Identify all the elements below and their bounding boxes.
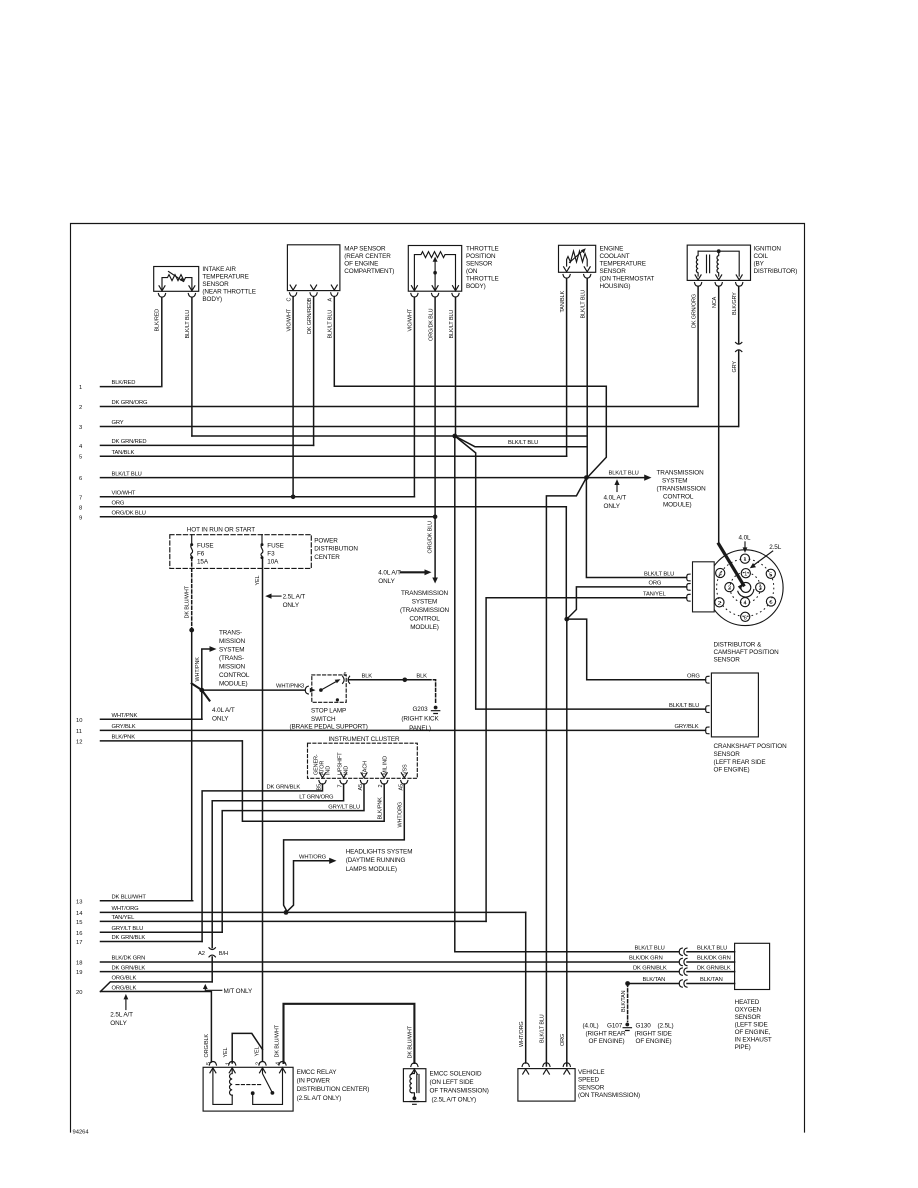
ignition coil box (687, 245, 797, 286)
svg-text:BODY): BODY) (466, 283, 486, 290)
relay pin 5 (209, 1062, 216, 1073)
svg-text:G203: G203 (412, 706, 428, 713)
fuse F6 15A (190, 535, 213, 566)
svg-text:DK GRN/BLK: DK GRN/BLK (697, 965, 731, 971)
wire YEL relay pin1 branch (223, 1033, 263, 1063)
svg-text:B5: B5 (317, 784, 323, 791)
svg-text:ONLY: ONLY (378, 578, 395, 585)
svg-text:7: 7 (338, 785, 344, 788)
TPS pin VIO/WHT (411, 286, 418, 297)
wire BLK/TAN HO2S to ground (621, 977, 735, 1021)
svg-text:NCA: NCA (712, 296, 718, 308)
wire ORG from wire8 down (565, 507, 567, 619)
svg-text:9: 9 (79, 515, 82, 521)
junction node BLK/LT BLU transmission (584, 475, 589, 480)
svg-text:(TRANSMISSION: (TRANSMISSION (657, 486, 707, 493)
wire VIO/WHT TPS to wire7 (408, 297, 415, 497)
svg-text:THROTTLE: THROTTLE (466, 276, 499, 283)
svg-text:4.0L A/T: 4.0L A/T (212, 707, 235, 714)
svg-text:HEATED: HEATED (735, 999, 760, 1006)
svg-text:BLK/DK GRN: BLK/DK GRN (112, 956, 146, 962)
headlights system text (346, 849, 413, 873)
throttle position sensor box (408, 246, 498, 298)
svg-text:SYSTEM: SYSTEM (412, 599, 438, 606)
svg-text:GRY/LT BLU: GRY/LT BLU (328, 804, 360, 810)
crankshaft position sensor box (669, 673, 787, 774)
wire DK GRN/ORG coil to wire2 (691, 286, 698, 406)
transmission system text upper (657, 470, 707, 509)
svg-text:DISTRIBUTION CENTER): DISTRIBUTION CENTER) (297, 1086, 370, 1093)
fuse F3 10A (261, 535, 284, 566)
engine coolant temperature sensor box (559, 245, 655, 290)
ECT pin TAN/BLK (563, 267, 570, 278)
cluster pin A5 VSS (401, 773, 408, 784)
svg-text:15A: 15A (197, 559, 209, 566)
svg-text:SENSOR: SENSOR (466, 261, 493, 268)
EMCC solenoid box (403, 1063, 488, 1104)
svg-text:COMPARTMENT): COMPARTMENT) (344, 268, 394, 275)
MAP pin C (290, 285, 297, 296)
wire 14 WHT/ORG (76, 906, 526, 917)
svg-text:G130: G130 (636, 1023, 652, 1030)
svg-text:BLK/LT BLU: BLK/LT BLU (449, 310, 455, 339)
crank sensor pin GRY/BLK (706, 727, 709, 734)
svg-text:ORG/BLK: ORG/BLK (112, 976, 137, 982)
svg-text:DK GRN/ORG: DK GRN/ORG (691, 294, 697, 328)
svg-text:LAMPS MODULE): LAMPS MODULE) (346, 866, 397, 873)
svg-text:1: 1 (79, 385, 82, 391)
ground G107 G130 (583, 1023, 674, 1046)
wire DK GRN/BLK generator ind to wire17 (202, 784, 322, 942)
svg-text:ONLY: ONLY (604, 503, 621, 510)
note 4.0L arrow to terminal 1 (739, 535, 752, 553)
svg-text:10A: 10A (267, 559, 279, 566)
svg-text:ONLY: ONLY (283, 602, 300, 609)
svg-text:HEADLIGHTS SYSTEM: HEADLIGHTS SYSTEM (346, 849, 413, 856)
ECT pin BLK/LT BLU (584, 267, 591, 278)
svg-text:MISSION: MISSION (219, 638, 246, 645)
svg-text:CONTROL: CONTROL (409, 616, 440, 623)
svg-text:DK GRN/RED: DK GRN/RED (307, 301, 313, 334)
svg-text:2.5L A/T: 2.5L A/T (283, 594, 306, 601)
svg-text:TAN/YEL: TAN/YEL (643, 591, 667, 597)
svg-text:MAP SENSOR: MAP SENSOR (344, 246, 386, 253)
svg-text:HOT IN RUN OR START: HOT IN RUN OR START (187, 527, 255, 534)
ground G203 (401, 706, 439, 732)
wire BLK/LT BLU jog to label run (455, 436, 587, 447)
svg-text:BLK/LT BLU: BLK/LT BLU (609, 471, 639, 477)
svg-text:(4.0L): (4.0L) (583, 1023, 599, 1030)
cluster pin 7 (340, 773, 347, 784)
intake air temperature sensor box (154, 266, 256, 303)
svg-text:INSTRUMENT CLUSTER: INSTRUMENT CLUSTER (329, 736, 401, 743)
coil secondary winding (717, 251, 719, 276)
solenoid coil (410, 1074, 412, 1093)
svg-text:WHT/ORG: WHT/ORG (112, 906, 140, 912)
thermistor symbol ECT (567, 251, 588, 266)
coil pin NCA (715, 275, 722, 286)
junction node BLK/LT BLU sensors (452, 434, 457, 439)
svg-text:CRANKSHAFT POSITION: CRANKSHAFT POSITION (714, 743, 788, 750)
svg-text:DK BLU/WHT: DK BLU/WHT (408, 1025, 414, 1058)
wire ORG to crankshaft sensor (567, 619, 706, 680)
svg-text:IN EXHAUST: IN EXHAUST (735, 1037, 772, 1044)
svg-text:TAN/BLK: TAN/BLK (112, 450, 135, 456)
svg-text:SENSOR: SENSOR (714, 751, 741, 758)
intake pin left (158, 286, 165, 297)
stop lamp switch dashed box (290, 672, 368, 731)
svg-text:OF ENGINE): OF ENGINE) (636, 1038, 672, 1045)
svg-text:(ON TRANSMISSION): (ON TRANSMISSION) (578, 1092, 640, 1099)
svg-text:A2: A2 (198, 951, 205, 957)
svg-text:BLK/LT BLU: BLK/LT BLU (508, 440, 538, 446)
svg-text:3: 3 (301, 684, 304, 690)
relay switch (236, 1084, 262, 1086)
wire BLK/LT BLU ECT down to junction and distributor (581, 278, 687, 577)
svg-text:3: 3 (759, 586, 762, 592)
svg-text:POSITION: POSITION (466, 253, 496, 260)
svg-text:YEL: YEL (223, 1047, 229, 1057)
svg-text:DK GRN/BLK: DK GRN/BLK (112, 965, 146, 971)
svg-text:5: 5 (769, 572, 772, 578)
svg-text:BLK: BLK (362, 673, 373, 679)
svg-text:(TRANSMISSION: (TRANSMISSION (400, 607, 450, 614)
svg-text:2: 2 (728, 586, 731, 592)
svg-text:MISSION: MISSION (219, 664, 246, 671)
thermistor symbol intake (162, 275, 192, 291)
MAP pin A (331, 285, 338, 296)
wire YEL fuse F3 down to relay (255, 558, 262, 1061)
svg-text:DISTRIBUTOR &: DISTRIBUTOR & (714, 641, 762, 648)
svg-text:BLK/LT BLU: BLK/LT BLU (644, 571, 674, 577)
svg-text:20: 20 (76, 990, 82, 996)
svg-text:(BY: (BY (754, 261, 765, 268)
svg-text:(2.5L A/T ONLY): (2.5L A/T ONLY) (432, 1096, 477, 1103)
svg-text:BLK/LT BLU: BLK/LT BLU (540, 1014, 546, 1043)
cluster generator indicator label (314, 754, 332, 775)
wire 12 BLK/PNK (76, 735, 242, 746)
svg-text:A: A (328, 298, 334, 302)
svg-text:3: 3 (79, 425, 82, 431)
crank sensor pin BLK/LT BLU (706, 706, 709, 713)
note 4.0L A/T ONLY at WHT/PNK (202, 690, 235, 722)
solenoid case ground (410, 1096, 418, 1104)
svg-text:BLK/PNK: BLK/PNK (377, 797, 383, 820)
distributor rotor arc (738, 590, 754, 598)
svg-text:(RIGHT SIDE: (RIGHT SIDE (635, 1030, 672, 1037)
svg-text:2: 2 (256, 1062, 262, 1065)
wire DK BLU/WHT fuse F6 dashed (185, 558, 192, 631)
junction node WHT/PNK (199, 688, 204, 693)
svg-text:(IN POWER: (IN POWER (297, 1078, 331, 1085)
VSS pin WHT/ORG (522, 1063, 529, 1074)
svg-text:(BRAKE PEDAL SUPPORT): (BRAKE PEDAL SUPPORT) (290, 724, 368, 731)
wire BLK stop lamp to ground (349, 673, 436, 704)
connector in-line HO2S BLK/LT BLU (635, 946, 735, 956)
svg-text:GRY/BLK: GRY/BLK (675, 724, 699, 730)
svg-text:WHT/PNK: WHT/PNK (195, 657, 201, 682)
svg-text:BLK/LT BLU: BLK/LT BLU (697, 946, 727, 952)
svg-text:2.5L: 2.5L (769, 544, 782, 551)
transmission system text left-block (219, 630, 250, 688)
svg-text:(2.5L A/T ONLY): (2.5L A/T ONLY) (297, 1095, 342, 1102)
svg-text:BODY): BODY) (202, 296, 222, 303)
TPS pin ORG/DK BLU (432, 286, 439, 297)
svg-text:ORG/DK BLU: ORG/DK BLU (428, 308, 434, 341)
svg-text:IGNITION: IGNITION (754, 246, 782, 253)
svg-text:SPEED: SPEED (578, 1077, 600, 1084)
coil core bars (707, 255, 710, 273)
distributor cap terminal 4 left (716, 568, 725, 577)
distributor dashed pin circles (717, 559, 774, 616)
svg-text:(ON LEFT SIDE: (ON LEFT SIDE (430, 1079, 474, 1086)
potentiometer resistor TPS (414, 252, 455, 291)
svg-text:12: 12 (76, 739, 82, 745)
note 2.5L A/T ONLY arrow wire 20 (110, 994, 133, 1027)
svg-text:WHT/PNK: WHT/PNK (276, 684, 302, 690)
svg-text:1: 1 (225, 1062, 231, 1065)
svg-text:GRY: GRY (112, 420, 124, 426)
wire BLK/LT BLU TPS to junction (449, 297, 456, 436)
wire WHT/PNK to stop lamp switch (202, 684, 305, 690)
wire NCA coil down to distributor (712, 286, 719, 544)
svg-text:BLK/RED: BLK/RED (112, 380, 136, 386)
VSS pin ORG (563, 1063, 570, 1074)
svg-text:BLK/LT BLU: BLK/LT BLU (328, 310, 334, 339)
svg-text:6: 6 (769, 600, 772, 606)
svg-text:C: C (286, 298, 292, 302)
svg-text:VIO/WHT: VIO/WHT (286, 308, 292, 331)
svg-text:SENSOR: SENSOR (714, 656, 741, 663)
svg-text:WHT/ORG: WHT/ORG (519, 1021, 525, 1047)
wire 8 ORG (79, 501, 566, 512)
svg-text:1: 1 (743, 557, 746, 563)
svg-text:(ON THERMOSTAT: (ON THERMOSTAT (600, 276, 655, 283)
svg-text:ORG/BLK: ORG/BLK (204, 1034, 210, 1058)
svg-text:(ON: (ON (466, 268, 478, 275)
wire WHT/PNK splice diagonal (192, 684, 202, 691)
svg-text:ORG/BLK: ORG/BLK (112, 986, 137, 992)
MAP pin B (310, 285, 317, 296)
svg-text:5: 5 (206, 1062, 212, 1065)
coil pin DK GRN/ORG (695, 275, 702, 286)
svg-text:GRY/BLK: GRY/BLK (112, 724, 136, 730)
svg-text:11: 11 (76, 729, 82, 735)
svg-text:TRANS-: TRANS- (219, 630, 242, 637)
MAP sensor box (286, 245, 394, 302)
wire 7 VIO/WHT (79, 491, 414, 502)
connector in-line HO2S BLK/DK GRN (629, 956, 735, 966)
svg-text:OXYGEN: OXYGEN (735, 1007, 762, 1014)
wire TAN/YEL into distributor (486, 591, 686, 921)
wire BLK/LT BLU junction down jog to VSS drop (546, 478, 586, 1066)
svg-text:2.5L A/T: 2.5L A/T (110, 1012, 133, 1019)
svg-text:ORG: ORG (112, 501, 125, 507)
svg-text:(RIGHT KICK: (RIGHT KICK (401, 716, 439, 723)
svg-text:YEL: YEL (254, 1046, 260, 1056)
svg-text:4.0L: 4.0L (739, 535, 752, 542)
instrument cluster dashed box (308, 736, 418, 778)
svg-text:14: 14 (76, 911, 83, 917)
svg-text:DK GRN/BLK: DK GRN/BLK (112, 935, 146, 941)
distributor connector pin BLK/LT BLU (687, 574, 690, 581)
note M/T ONLY arrow (203, 984, 253, 995)
svg-text:10: 10 (76, 718, 82, 724)
svg-text:A5: A5 (398, 784, 404, 791)
svg-text:F3: F3 (267, 551, 275, 558)
svg-text:EMCC SOLENOID: EMCC SOLENOID (430, 1071, 482, 1078)
wire 1 BLK/RED (79, 380, 160, 391)
svg-text:M/T ONLY: M/T ONLY (224, 988, 253, 995)
svg-text:4.0L A/T: 4.0L A/T (378, 570, 401, 577)
svg-text:15: 15 (76, 920, 82, 926)
svg-text:POWER: POWER (314, 538, 338, 545)
svg-text:TAN/BLK: TAN/BLK (560, 291, 566, 313)
svg-text:B: B (307, 298, 313, 302)
svg-text:DK GRN/RED: DK GRN/RED (112, 439, 147, 445)
distributor cap terminal 3 inner (756, 583, 765, 592)
distributor and camshaft position sensor (687, 535, 783, 664)
svg-text:8: 8 (79, 505, 82, 511)
svg-text:4.0L A/T: 4.0L A/T (604, 495, 627, 502)
TPS wiper arrow (434, 260, 436, 273)
wire 16 GRY/LT BLU (76, 926, 222, 937)
wire BLK/GRY coil to wire3 via GRY connector (732, 286, 742, 426)
EMCC relay box (203, 1062, 369, 1112)
connector in-line HO2S DK GRN/BLK (633, 965, 735, 975)
svg-text:2: 2 (378, 785, 384, 788)
svg-text:YEL: YEL (255, 575, 261, 585)
svg-text:ORG: ORG (560, 1034, 566, 1046)
svg-text:MODULE): MODULE) (663, 502, 692, 509)
distributor cap terminal 4 inner bottom (740, 598, 749, 607)
distributor connector pin TAN/YEL (687, 594, 690, 601)
wire BLK/PNK MIL to wire12 (242, 741, 384, 821)
distributor center terminal (741, 582, 751, 592)
wire ORG into distributor (567, 581, 687, 620)
connector A2 B/H (198, 948, 228, 957)
distributor connector pin ORG (687, 584, 690, 591)
svg-text:WHT/PNK: WHT/PNK (112, 713, 138, 719)
svg-text:FUSE: FUSE (267, 543, 284, 550)
stop lamp switch pin6 (343, 676, 350, 683)
svg-text:COOLANT: COOLANT (600, 253, 630, 260)
svg-text:94264: 94264 (73, 1130, 90, 1136)
wire 19 DK GRN/BLK (76, 965, 679, 976)
svg-text:G107: G107 (607, 1023, 623, 1030)
wire BLK/LT BLU MAP-A down right (328, 297, 607, 478)
wire 20 ORG/BLK fork (76, 976, 212, 1062)
svg-text:(2.5L): (2.5L) (658, 1023, 674, 1030)
svg-text:CONTROL: CONTROL (663, 494, 694, 501)
svg-text:ORG/DK BLU: ORG/DK BLU (427, 521, 433, 554)
svg-text:TEMPERATURE: TEMPERATURE (600, 261, 646, 268)
svg-text:DISTRIBUTOR): DISTRIBUTOR) (754, 268, 798, 275)
wire 3 GRY (79, 420, 738, 431)
coil primary winding (696, 251, 698, 276)
svg-text:13: 13 (76, 899, 82, 905)
svg-text:THROTTLE: THROTTLE (466, 246, 499, 253)
svg-text:BLK/LT BLU: BLK/LT BLU (635, 946, 665, 952)
wire 11 GRY/BLK (76, 724, 706, 735)
svg-text:TAN/YEL: TAN/YEL (112, 915, 136, 921)
wire DK BLU/WHT relay pin4 to solenoid (275, 1004, 415, 1063)
note 2.5L arrow to inner terminal 1 (750, 544, 782, 568)
relay pin 2 (259, 1062, 266, 1073)
power distribution center dashed box (170, 527, 359, 569)
svg-text:LT GRN/ORG: LT GRN/ORG (299, 795, 334, 801)
wire GRY/LT BLU tach to wire16 (222, 784, 364, 932)
wire 18 BLK/DK GRN (76, 956, 679, 967)
wire 9 ORG/DK BLU (79, 511, 435, 522)
svg-text:TRANSMISSION: TRANSMISSION (657, 470, 705, 477)
svg-text:SENSOR: SENSOR (578, 1084, 605, 1091)
svg-text:SYSTEM: SYSTEM (219, 647, 245, 654)
wire BLK/LT BLU intake run across (192, 435, 587, 437)
svg-text:DK GRN/ORG: DK GRN/ORG (112, 400, 149, 406)
svg-text:BLK/LT BLU: BLK/LT BLU (112, 471, 142, 477)
wire WHT/ORG VSS pin to wire14 (284, 784, 405, 912)
svg-text:ENGINE: ENGINE (600, 246, 624, 253)
svg-text:6: 6 (744, 615, 747, 621)
note 2.5L A/T ONLY arrow to YEL (265, 594, 305, 610)
svg-text:IND: IND (326, 766, 332, 775)
svg-text:VIO/WHT: VIO/WHT (408, 308, 414, 331)
svg-text:VEHICLE: VEHICLE (578, 1069, 604, 1076)
wire 17 DK GRN/BLK (76, 935, 202, 946)
svg-text:BLK/LT BLU: BLK/LT BLU (581, 290, 587, 319)
wire 2 DK GRN/ORG (79, 400, 698, 411)
svg-text:2: 2 (79, 405, 82, 411)
coil pin BLK/GRY (736, 275, 743, 286)
svg-text:STOP LAMP: STOP LAMP (311, 708, 346, 715)
svg-text:COIL: COIL (754, 253, 769, 260)
svg-text:BLK/DK GRN: BLK/DK GRN (629, 956, 663, 962)
wire BLK/LT BLU intake down (185, 297, 192, 436)
svg-text:OF ENGINE,: OF ENGINE, (735, 1029, 771, 1036)
wire DK GRN/RED MAP-B to wire4 (307, 297, 314, 446)
svg-text:1: 1 (744, 572, 747, 578)
svg-text:6: 6 (344, 672, 347, 678)
svg-text:MODULE): MODULE) (410, 624, 439, 631)
svg-text:SENSOR: SENSOR (735, 1014, 762, 1021)
wire 15 TAN/YEL (76, 915, 486, 926)
stop lamp switch connector pin3 (305, 686, 308, 694)
distributor cap terminal 6 bottom (741, 612, 750, 621)
svg-text:BLK/DK GRN: BLK/DK GRN (697, 956, 731, 962)
svg-text:B/H: B/H (219, 951, 228, 957)
svg-text:A5: A5 (358, 784, 364, 791)
wire WHT/ORG branch to headlights system (286, 854, 337, 912)
svg-text:SWITCH: SWITCH (311, 716, 336, 723)
wire ORG/DK BLU TPS down to transmission arrow (427, 297, 438, 583)
junction node ORG (564, 617, 569, 622)
svg-text:MIL IND: MIL IND (383, 756, 389, 775)
cluster pin 2 MIL (381, 773, 388, 784)
solenoid pin (411, 1063, 418, 1074)
svg-text:5: 5 (79, 455, 82, 461)
svg-text:ORG: ORG (687, 673, 700, 679)
svg-text:(DAYTIME RUNNING: (DAYTIME RUNNING (346, 857, 406, 864)
relay pin 4 (279, 1062, 286, 1073)
distributor cap terminal 6 right bottom (766, 597, 775, 606)
distributor outer circle (707, 550, 783, 626)
svg-text:ONLY: ONLY (212, 716, 229, 723)
svg-text:PANEL): PANEL) (409, 725, 431, 732)
relay coil (229, 1067, 232, 1095)
svg-text:6: 6 (79, 476, 82, 482)
wire 5 TAN/BLK (79, 450, 567, 461)
